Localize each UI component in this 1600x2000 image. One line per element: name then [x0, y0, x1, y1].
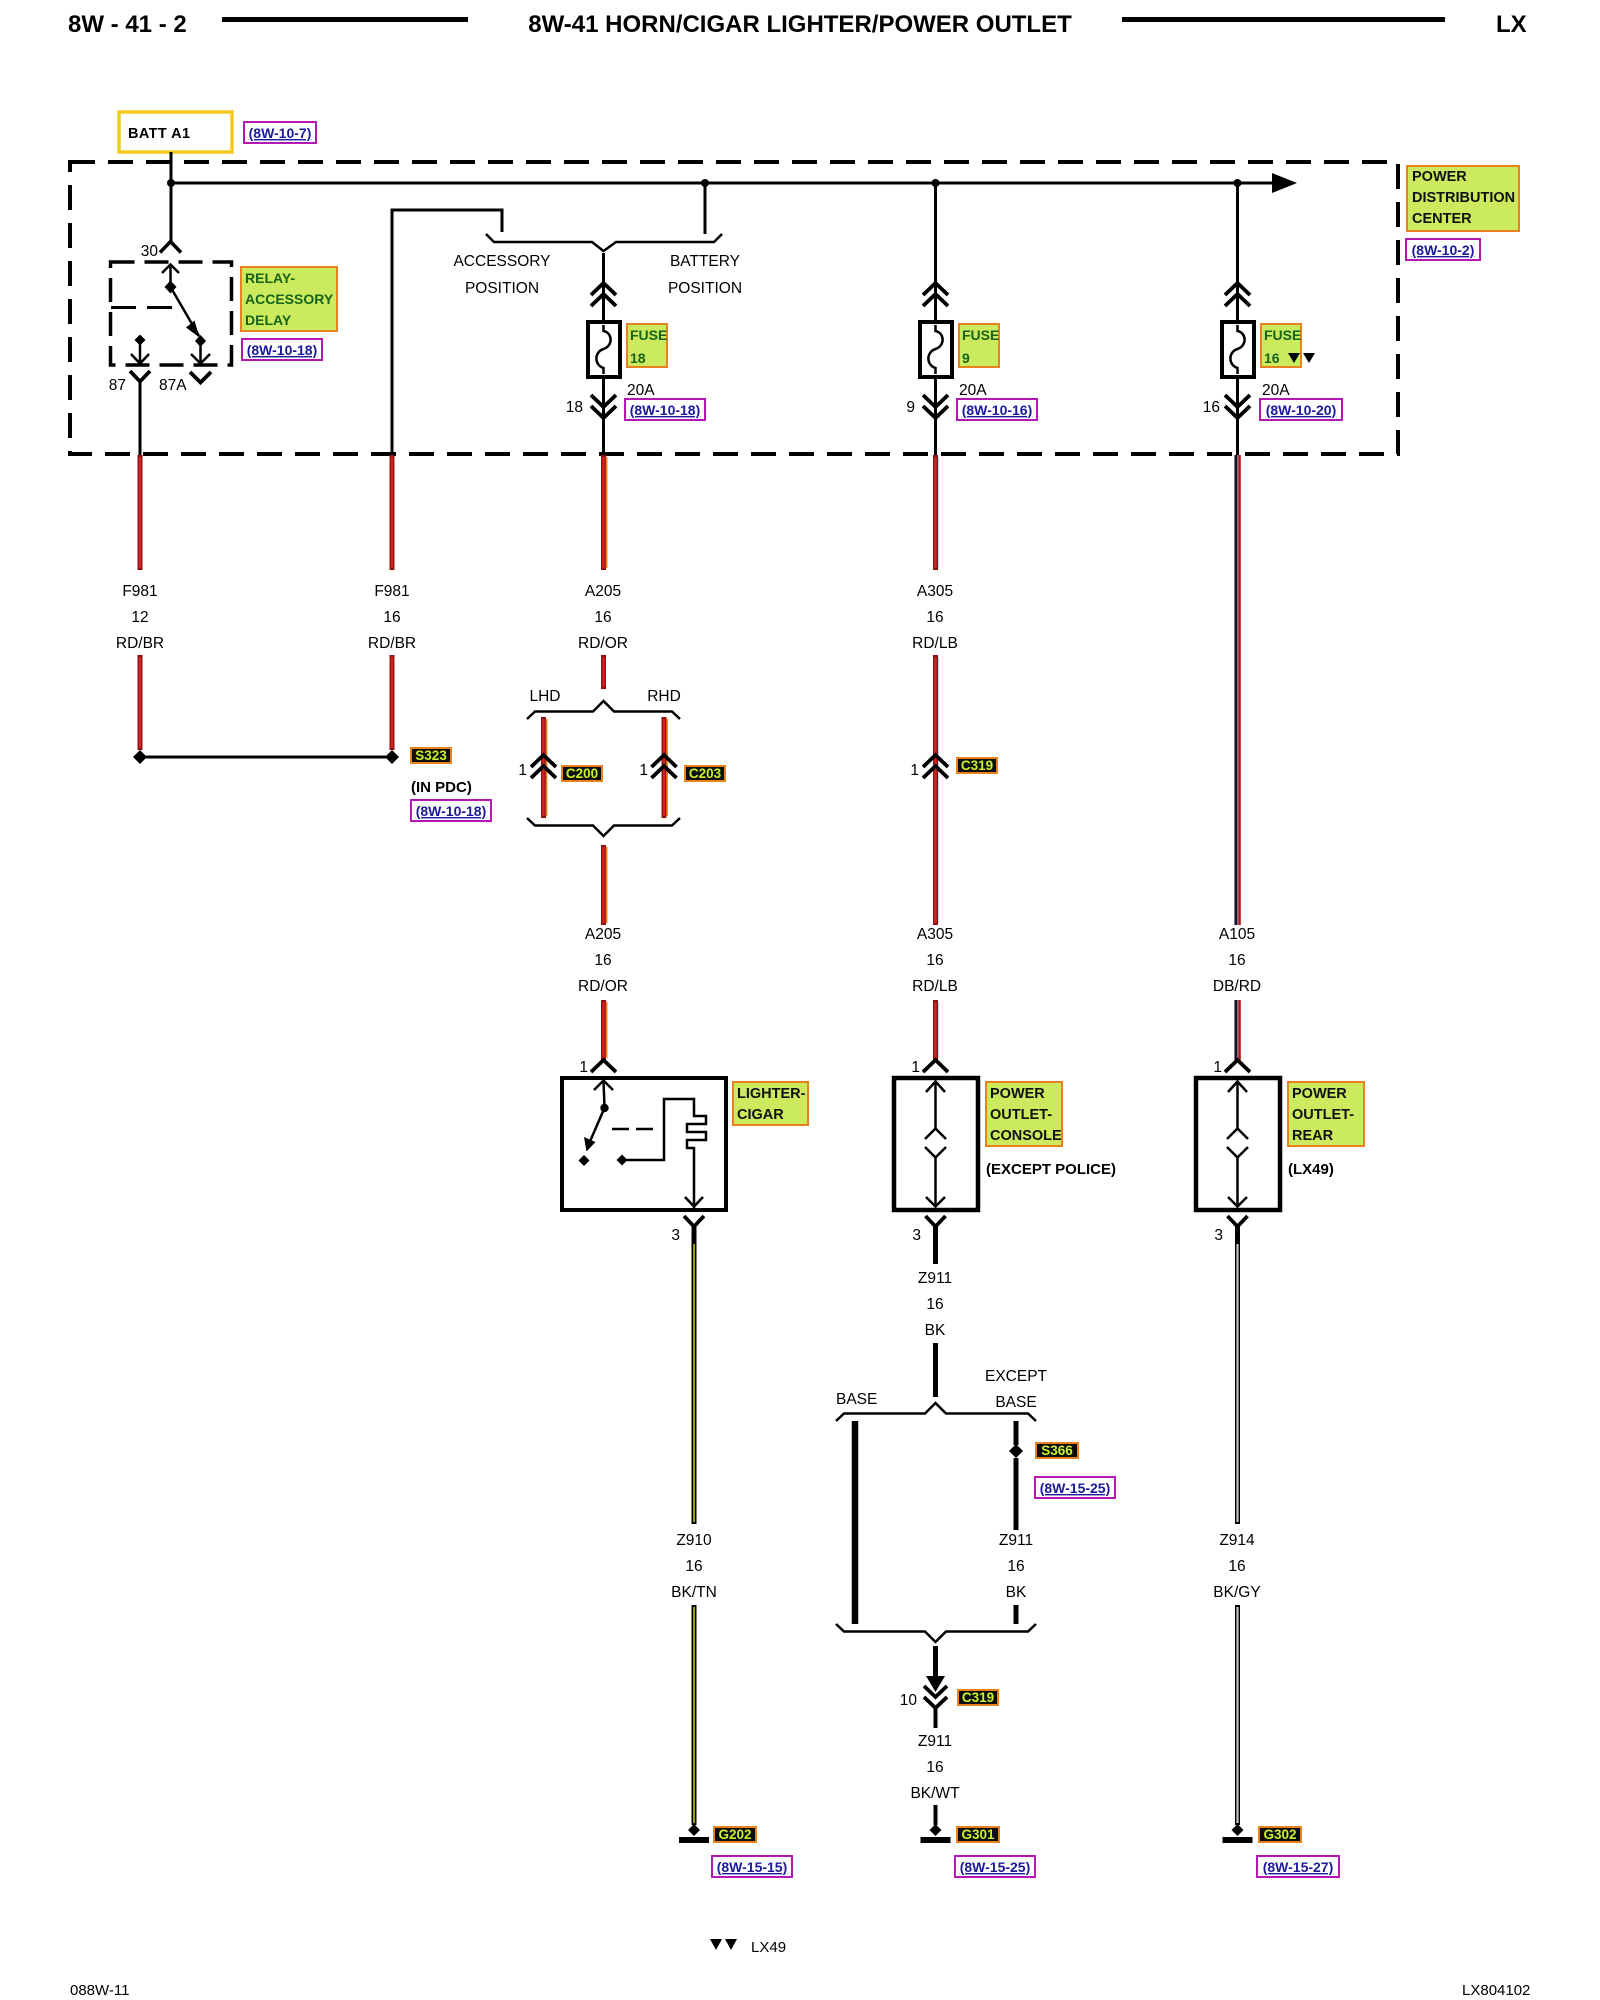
svg-text:Z911: Z911: [999, 1532, 1033, 1549]
link 8W-15-25 S366: [1035, 1477, 1115, 1498]
svg-text:20A: 20A: [959, 382, 987, 399]
splice wire S323: [146, 756, 386, 759]
lighter-cigar element box: [562, 1078, 726, 1210]
svg-text:(8W-10-20): (8W-10-20): [1266, 402, 1337, 418]
svg-text:BATT A1: BATT A1: [128, 126, 190, 142]
svg-text:1: 1: [1213, 1059, 1222, 1076]
svg-text:1: 1: [579, 1059, 588, 1076]
svg-text:F981: F981: [122, 583, 157, 600]
rear output wire: [1236, 1158, 1239, 1207]
ground G202: [688, 1824, 700, 1836]
svg-text:S366: S366: [1041, 1443, 1073, 1458]
svg-text:FUSE: FUSE: [1264, 327, 1301, 343]
relay accessory delay pin 30 connector: [160, 242, 181, 253]
svg-text:LIGHTER-: LIGHTER-: [737, 1086, 806, 1102]
svg-text:BK/WT: BK/WT: [910, 1785, 960, 1802]
wire F981 12 RD/BR lower segment: [138, 655, 143, 750]
wire except-base branch mid: [1014, 1458, 1019, 1530]
svg-text:ACCESSORY: ACCESSORY: [453, 253, 550, 270]
lighter dashed actuation link: [612, 1128, 660, 1131]
label G301: [957, 1827, 999, 1842]
wire LHD branch RD/OR: [541, 717, 546, 818]
wire base branch: [852, 1421, 859, 1624]
link 8W-10-20: [1260, 399, 1342, 420]
split bracket BASE / EXCEPT BASE: [836, 1403, 1036, 1421]
link 8W-10-18: [625, 399, 705, 420]
svg-text:8W - 41 - 2: 8W - 41 - 2: [68, 11, 187, 38]
svg-text:(LX49): (LX49): [1288, 1161, 1334, 1178]
svg-text:RD/LB: RD/LB: [912, 978, 958, 995]
svg-text:BASE: BASE: [836, 1391, 877, 1408]
label RELAY-ACCESSORY DELAY: [241, 267, 337, 331]
pin 87A connector: [190, 372, 211, 383]
wire below fuse 9: [934, 377, 937, 455]
svg-text:3: 3: [1214, 1227, 1223, 1244]
wire from bus to fuse 16: [1236, 183, 1239, 325]
svg-text:1: 1: [518, 762, 527, 779]
svg-text:DB/RD: DB/RD: [1213, 978, 1261, 995]
svg-text:18: 18: [566, 399, 583, 416]
connector C319 lower chevrons: [924, 1686, 947, 1708]
svg-text:BK: BK: [1006, 1584, 1027, 1601]
wire from bracket to fuse 18: [602, 253, 605, 325]
svg-text:20A: 20A: [627, 382, 655, 399]
svg-text:3: 3: [912, 1227, 921, 1244]
svg-text:10: 10: [900, 1692, 918, 1709]
header rule right: [1122, 17, 1445, 22]
svg-text:G301: G301: [961, 1827, 995, 1842]
svg-text:RD/OR: RD/OR: [578, 635, 628, 652]
splice node S366: [1009, 1444, 1023, 1458]
svg-text:(8W-15-25): (8W-15-25): [960, 1859, 1031, 1875]
svg-text:POSITION: POSITION: [668, 280, 742, 297]
svg-text:EXCEPT: EXCEPT: [985, 1368, 1048, 1385]
link 8W-15-25 G301: [955, 1856, 1035, 1877]
wire A105 to power outlet rear: [1234, 1000, 1237, 1060]
battery feed BATT A1: [119, 112, 232, 152]
link 8W-10-18 S323: [411, 800, 491, 821]
svg-text:Z914: Z914: [1219, 1532, 1255, 1549]
connector chevrons below fuse 18: [591, 395, 616, 418]
wire A305 16 RD/LB upper segment: [933, 455, 938, 570]
wire A205 to lighter: [601, 1000, 606, 1060]
relay accessory delay enclosure: [111, 262, 232, 365]
ground G301: [930, 1824, 942, 1836]
svg-text:16: 16: [1203, 399, 1220, 416]
svg-text:DISTRIBUTION: DISTRIBUTION: [1412, 190, 1515, 206]
wire A305 16 RD/LB to C319: [933, 655, 938, 925]
svg-text:RD/BR: RD/BR: [116, 635, 164, 652]
junction node at relay branch: [167, 179, 175, 187]
svg-text:RHD: RHD: [647, 688, 681, 705]
svg-text:(EXCEPT POLICE): (EXCEPT POLICE): [986, 1161, 1116, 1178]
link 8W-10-18 relay: [242, 339, 322, 360]
connector chevrons above fuse 16: [1225, 283, 1250, 306]
rear input arrow: [1228, 1082, 1247, 1093]
svg-text:RELAY-: RELAY-: [245, 270, 295, 286]
svg-text:1: 1: [910, 762, 919, 779]
wire Z910 16 BK/TN lower segment: [692, 1605, 697, 1825]
svg-text:(8W-10-2): (8W-10-2): [1412, 242, 1475, 258]
svg-text:8W-41 HORN/CIGAR LIGHTER/POWER: 8W-41 HORN/CIGAR LIGHTER/POWER OUTLET: [528, 11, 1072, 38]
svg-text:C319: C319: [961, 758, 993, 773]
footnote triangles fuse 16: [1288, 353, 1300, 363]
svg-text:BK: BK: [925, 1322, 946, 1339]
label FUSE 18: [627, 324, 667, 367]
svg-text:CIGAR: CIGAR: [737, 1107, 784, 1123]
bus wire from battery feed: [171, 182, 1274, 185]
link 8W-15-15: [712, 1856, 792, 1877]
svg-text:(8W-10-18): (8W-10-18): [630, 402, 701, 418]
svg-text:Z911: Z911: [918, 1270, 952, 1287]
link 8W-10-16: [957, 399, 1037, 420]
svg-text:C200: C200: [566, 766, 598, 781]
svg-text:16: 16: [1228, 1558, 1245, 1575]
wire A305 to power outlet console: [933, 1000, 938, 1060]
wire below fuse 18: [602, 377, 605, 455]
wire A105 16 DB/RD upper segment: [1234, 455, 1237, 925]
junction node at fuse 9 branch: [932, 179, 940, 187]
svg-text:Z910: Z910: [676, 1532, 712, 1549]
label FUSE 9: [959, 324, 999, 367]
svg-text:RD/OR: RD/OR: [578, 978, 628, 995]
merge bracket accessory/battery: [486, 234, 722, 251]
connector C200 chevrons: [531, 755, 556, 778]
connector C319 chevrons: [923, 755, 948, 778]
label FUSE 16: [1261, 324, 1301, 367]
connector chevrons above fuse 9: [923, 283, 948, 306]
svg-text:87A: 87A: [159, 377, 187, 394]
pin 1 connector lighter: [591, 1060, 616, 1072]
wire accessory position feed: [392, 210, 502, 455]
svg-text:A305: A305: [917, 926, 953, 943]
wire Z911 to base split: [933, 1343, 938, 1397]
svg-text:BK/TN: BK/TN: [671, 1584, 717, 1601]
label S366: [1036, 1443, 1078, 1458]
link 8W-10-2: [1406, 239, 1480, 260]
svg-text:16: 16: [594, 609, 611, 626]
svg-text:OUTLET-: OUTLET-: [990, 1107, 1052, 1123]
link 8W-15-27: [1257, 1856, 1339, 1877]
label POWER DISTRIBUTION CENTER: [1407, 166, 1519, 231]
svg-text:16: 16: [926, 609, 943, 626]
header rule left: [222, 17, 468, 22]
power outlet rear box: [1196, 1078, 1280, 1210]
svg-text:LX: LX: [1496, 11, 1527, 38]
label POWER OUTLET-CONSOLE: [986, 1082, 1062, 1146]
wire Z911 16 BK upper: [933, 1242, 938, 1264]
heater element node: [617, 1155, 628, 1166]
svg-text:16: 16: [1264, 350, 1280, 366]
wire F981 16 RD/BR upper segment: [390, 455, 395, 570]
svg-text:20A: 20A: [1262, 382, 1290, 399]
wire F981 12 RD/BR upper segment: [138, 455, 143, 570]
svg-text:16: 16: [1007, 1558, 1024, 1575]
wire RHD branch RD/OR: [662, 717, 667, 818]
svg-text:16: 16: [594, 952, 611, 969]
label G202: [714, 1827, 756, 1842]
wire Z911 16 BK/WT lower: [934, 1805, 938, 1825]
svg-text:RD/BR: RD/BR: [368, 635, 416, 652]
svg-text:CENTER: CENTER: [1412, 211, 1472, 227]
svg-text:POSITION: POSITION: [465, 280, 539, 297]
svg-text:A205: A205: [585, 583, 621, 600]
svg-text:(8W-10-16): (8W-10-16): [962, 402, 1033, 418]
label C200: [562, 766, 602, 781]
svg-text:16: 16: [926, 1296, 943, 1313]
wire F981 16 RD/BR lower segment: [390, 655, 395, 750]
svg-text:POWER: POWER: [1412, 169, 1467, 185]
wire Z914 16 BK/GY lower segment: [1235, 1605, 1240, 1825]
svg-text:BATTERY: BATTERY: [670, 253, 740, 270]
connector chevrons below fuse 16: [1225, 395, 1250, 418]
svg-text:(IN PDC): (IN PDC): [411, 779, 472, 796]
wire A205 to LHD/RHD split: [601, 655, 606, 689]
lighter switch blade: [588, 1108, 605, 1146]
svg-text:A205: A205: [585, 926, 621, 943]
bus arrowhead: [1272, 173, 1297, 193]
label C203: [685, 766, 725, 781]
junction node at battery position branch: [701, 179, 709, 187]
svg-text:CONSOLE: CONSOLE: [990, 1128, 1062, 1144]
connector chevrons above fuse 18: [591, 283, 616, 306]
svg-text:1: 1: [639, 762, 648, 779]
label G302: [1259, 1827, 1301, 1842]
svg-text:F981: F981: [374, 583, 409, 600]
svg-text:12: 12: [131, 609, 148, 626]
heater output arrow: [685, 1197, 703, 1207]
pin 1 connector rear: [1225, 1060, 1250, 1072]
wire A205 16 RD/OR upper segment: [601, 455, 606, 570]
heater element: [623, 1099, 706, 1196]
power outlet console box: [894, 1078, 978, 1210]
relay coil dashed link: [111, 306, 173, 309]
svg-text:POWER: POWER: [1292, 1086, 1347, 1102]
wire except-base branch upper: [1014, 1421, 1019, 1445]
relay pivot node: [165, 281, 177, 294]
relay contact 87 stub: [135, 335, 146, 346]
wire battery position feed: [704, 183, 707, 234]
label C319: [957, 758, 997, 773]
wire pin 87 to PDC edge: [139, 392, 142, 455]
svg-text:S323: S323: [415, 748, 447, 763]
svg-text:(8W-15-27): (8W-15-27): [1263, 1859, 1334, 1875]
pin 87 connector: [130, 371, 150, 382]
merge bracket base/except-base: [836, 1624, 1036, 1642]
fuse 16: [1222, 322, 1254, 377]
svg-text:Z911: Z911: [918, 1733, 952, 1750]
svg-text:DELAY: DELAY: [245, 312, 292, 328]
svg-text:(8W-15-15): (8W-15-15): [717, 1859, 788, 1875]
svg-text:LHD: LHD: [529, 688, 560, 705]
pin 3 connector rear: [1228, 1216, 1248, 1227]
svg-text:1: 1: [911, 1059, 920, 1076]
lighter input arrow: [594, 1081, 613, 1091]
wire from BATT A1 to bus: [170, 152, 173, 241]
svg-text:16: 16: [926, 1759, 943, 1776]
blade end node: [579, 1155, 590, 1166]
relay common contact arrow: [162, 265, 179, 274]
svg-text:FUSE: FUSE: [962, 327, 999, 343]
svg-text:A105: A105: [1219, 926, 1255, 943]
svg-text:(8W-10-18): (8W-10-18): [416, 803, 487, 819]
split bracket LHD/RHD: [527, 701, 680, 719]
console input arrow: [926, 1082, 945, 1093]
label LIGHTER-CIGAR: [733, 1082, 808, 1125]
svg-text:BK/GY: BK/GY: [1213, 1584, 1260, 1601]
svg-text:(8W-10-18): (8W-10-18): [247, 342, 318, 358]
console connector split chevrons: [925, 1129, 946, 1140]
svg-text:LX804102: LX804102: [1462, 1982, 1530, 1999]
blade end node: [195, 335, 206, 347]
wire blade to pin 87A: [199, 341, 202, 363]
svg-text:16: 16: [1228, 952, 1245, 969]
svg-text:C319: C319: [962, 1690, 994, 1705]
wire except-base branch lower: [1014, 1605, 1019, 1624]
label C319 lower: [958, 1690, 998, 1705]
power distribution center enclosure: [70, 162, 1398, 454]
svg-text:30: 30: [141, 243, 159, 260]
fuse 18: [588, 322, 620, 377]
svg-text:POWER: POWER: [990, 1086, 1045, 1102]
link 8W-10-7: [244, 122, 316, 143]
merged wire with arrow: [933, 1646, 938, 1680]
svg-text:ACCESSORY: ACCESSORY: [245, 291, 334, 307]
svg-text:9: 9: [906, 399, 915, 416]
wire A205 16 RD/OR mid segment: [601, 845, 606, 925]
svg-text:G202: G202: [718, 1827, 751, 1842]
svg-text:G302: G302: [1263, 1827, 1296, 1842]
svg-text:16: 16: [383, 609, 400, 626]
svg-text:C203: C203: [689, 766, 722, 781]
label POWER OUTLET-REAR: [1288, 1082, 1364, 1146]
relay switch blade: [171, 287, 200, 336]
footnote triangles: [710, 1939, 722, 1950]
pin 3 connector console: [926, 1216, 946, 1227]
splice node S323: [385, 750, 399, 764]
svg-text:(8W-10-7): (8W-10-7): [249, 125, 312, 141]
svg-text:16: 16: [926, 952, 943, 969]
svg-text:18: 18: [630, 350, 646, 366]
connector C203 chevrons: [652, 755, 677, 778]
wire Z911 16 BK/WT upper: [934, 1708, 938, 1728]
svg-text:9: 9: [962, 350, 970, 366]
splice node left: [133, 750, 147, 764]
label S323: [411, 748, 451, 763]
svg-text:REAR: REAR: [1292, 1128, 1334, 1144]
svg-text:088W-11: 088W-11: [70, 1982, 129, 1999]
connector chevrons below fuse 9: [923, 395, 948, 418]
merge bracket LHD/RHD: [527, 818, 680, 836]
pin 3 connector lighter: [684, 1216, 704, 1227]
svg-text:OUTLET-: OUTLET-: [1292, 1107, 1354, 1123]
svg-text:RD/LB: RD/LB: [912, 635, 958, 652]
svg-text:BASE: BASE: [995, 1394, 1036, 1411]
pin 1 connector console: [923, 1060, 948, 1072]
wire Z914 16 BK/GY upper segment: [1235, 1242, 1240, 1524]
svg-text:3: 3: [671, 1227, 680, 1244]
svg-text:87: 87: [109, 377, 126, 394]
svg-text:FUSE: FUSE: [630, 327, 667, 343]
wire Z910 16 BK/TN upper segment: [692, 1242, 697, 1524]
wire below fuse 16: [1236, 377, 1239, 455]
junction node at fuse 16 branch: [1234, 179, 1242, 187]
wire from bus to fuse 9: [934, 183, 937, 325]
lighter pivot node: [600, 1104, 608, 1112]
svg-text:A305: A305: [917, 583, 953, 600]
fuse 9: [920, 322, 952, 377]
svg-text:16: 16: [685, 1558, 702, 1575]
rear connector split chevrons: [1227, 1129, 1248, 1140]
ground G302: [1232, 1824, 1244, 1836]
svg-text:(8W-15-25): (8W-15-25): [1040, 1480, 1111, 1496]
console output wire: [934, 1158, 937, 1207]
svg-text:LX49: LX49: [751, 1939, 786, 1956]
